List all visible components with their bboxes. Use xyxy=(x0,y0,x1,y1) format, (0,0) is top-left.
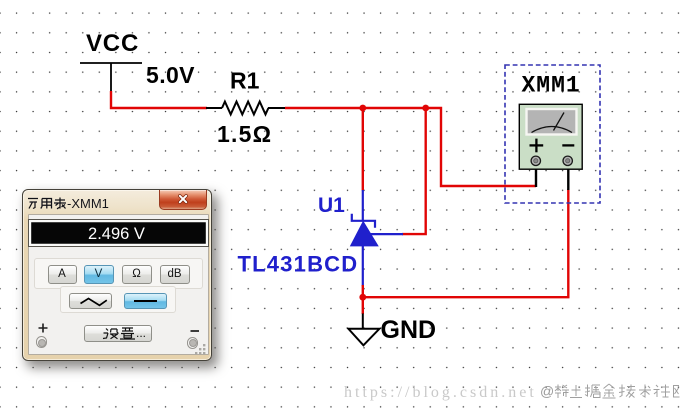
button V selected xyxy=(84,265,114,284)
she2 xyxy=(654,385,671,398)
svg-text:R1: R1 xyxy=(230,68,260,94)
svg-text:U1: U1 xyxy=(318,194,345,217)
svg-text:TL431BCD: TL431BCD xyxy=(238,252,359,277)
shunt regulator U1 xyxy=(352,190,403,286)
display xyxy=(28,219,209,247)
resistor R1 xyxy=(206,102,286,115)
button Ohm xyxy=(122,265,152,284)
wire R1 to node A xyxy=(285,107,363,109)
XMM1 minus lead xyxy=(567,164,569,190)
wire U1 anode to node C xyxy=(362,285,364,297)
shu xyxy=(639,385,651,398)
node A junction xyxy=(359,105,366,112)
wire U1 ref to node B xyxy=(402,108,426,234)
content area xyxy=(28,214,209,355)
title text xyxy=(27,196,127,210)
yong xyxy=(41,199,52,209)
close button xyxy=(159,190,207,210)
svg-text:VCC: VCC xyxy=(86,30,139,57)
multimeter XMM1 icon xyxy=(519,104,582,169)
button DC selected xyxy=(124,293,167,309)
xi xyxy=(555,385,569,399)
wire node C to XMM1 minus xyxy=(363,189,569,297)
qu xyxy=(674,386,680,398)
svg-text:1.5Ω: 1.5Ω xyxy=(217,121,272,147)
button A xyxy=(48,265,77,284)
svg-text:...: ... xyxy=(136,326,146,340)
XMM1 plus lead xyxy=(535,164,537,187)
resize grip xyxy=(195,344,207,356)
svg-text:GND: GND xyxy=(381,316,437,344)
wire node A to U1 cathode xyxy=(362,108,364,191)
wire VCC stub to R1 xyxy=(111,91,207,108)
jue xyxy=(585,385,600,399)
watermark csdn url xyxy=(344,384,537,402)
wire node C to ground xyxy=(362,297,364,314)
svg-text:-XMM1: -XMM1 xyxy=(67,196,109,210)
wire node B to XMM1 plus xyxy=(426,108,536,186)
button dB xyxy=(160,265,190,284)
node B junction xyxy=(422,105,429,112)
terminal right xyxy=(187,337,199,349)
terminal left xyxy=(36,336,48,348)
wire node A to node B xyxy=(363,107,426,109)
svg-text:XMM1: XMM1 xyxy=(522,73,581,99)
plus label xyxy=(38,323,48,333)
zhi xyxy=(120,328,135,339)
ji xyxy=(619,385,636,398)
multimeter dialog window XMM1 xyxy=(22,189,212,361)
ground xyxy=(348,314,379,346)
settings button xyxy=(84,325,152,342)
svg-text:@: @ xyxy=(540,383,554,399)
wan xyxy=(28,199,38,209)
tu xyxy=(570,385,582,398)
biao xyxy=(54,198,66,209)
jin xyxy=(603,384,616,398)
minus label xyxy=(190,329,200,333)
power symbol VCC xyxy=(80,63,142,92)
instrument box XMM1 xyxy=(505,65,600,203)
svg-text:5.0V: 5.0V xyxy=(146,62,195,88)
button sine xyxy=(69,293,112,309)
watermark juejin community xyxy=(540,383,680,400)
she xyxy=(103,329,119,339)
node C junction xyxy=(359,294,366,301)
